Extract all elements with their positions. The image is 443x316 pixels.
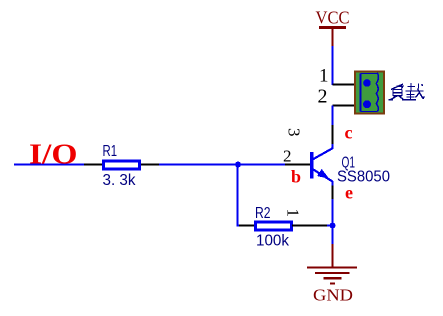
connector label 负载 (load), hand-drawn glyphs [389, 83, 425, 100]
transistor Q1 base bar [310, 152, 314, 179]
glyph 载 [408, 86, 416, 88]
junction A (dot at base net split) [235, 162, 241, 168]
connector J1 inner contact rail [360, 74, 362, 112]
svg-text:3: 3 [285, 128, 304, 137]
connector J1 pin 1 circle [363, 79, 371, 87]
connector J1 clamp arcs (wavy right contact) [376, 73, 378, 112]
svg-text:e: e [345, 183, 353, 203]
svg-text:100k: 100k [256, 233, 290, 250]
wire: I/O net horizontal left segment [14, 164, 85, 166]
power VCC stub (dark red) [331, 27, 333, 47]
wire: R2 to junction B [327, 225, 333, 227]
transistor Q1 emitter lead [332, 186, 334, 201]
resistor R2 body [256, 222, 292, 230]
connector J1 body (terminal block) [355, 71, 384, 113]
transistor Q1 collector lead [332, 124, 334, 145]
wire: emitter down to GND [332, 199, 334, 245]
svg-text:2: 2 [283, 147, 292, 166]
svg-text:1: 1 [319, 66, 329, 87]
ground bar 2 [315, 272, 350, 274]
resistor R1 pin 1 (left lead) [84, 164, 103, 166]
power VCC bar [319, 26, 346, 29]
svg-text:I/O: I/O [29, 139, 78, 171]
transistor Q1 emitter diagonal [313, 169, 333, 182]
wire: connector pin 2 down to collector [332, 106, 334, 126]
connector J1 inner bottom edge [361, 111, 378, 113]
wire: junction A to transistor base [238, 164, 286, 166]
connector J1 pin 1 lead [333, 84, 356, 86]
svg-text:1: 1 [284, 209, 303, 218]
resistor R2 pin 1 (left lead) [239, 225, 255, 227]
connector J1 pin 2 circle [363, 100, 371, 108]
resistor R1 pin 2 (right lead) [141, 164, 160, 166]
svg-text:2: 2 [318, 86, 328, 108]
transistor Q1 emitter arrow [317, 169, 329, 179]
connector J1 inner top edge [361, 73, 378, 75]
svg-text:c: c [345, 123, 353, 143]
svg-text:R1: R1 [103, 143, 118, 160]
wire: R1 to junction A [159, 164, 238, 166]
junction B (dot at emitter / R2) [330, 223, 336, 229]
resistor R1 body [104, 161, 140, 169]
svg-text:SS8050: SS8050 [337, 169, 390, 186]
wire: collector lead blue stub [332, 144, 334, 149]
glyph 负 [391, 84, 403, 90]
transistor Q1 base lead [285, 164, 310, 166]
wire: VCC to connector pin 1 [332, 46, 334, 85]
ground bar 4 [330, 282, 335, 284]
svg-text:GND: GND [313, 286, 353, 305]
ground stub (dark red) [331, 244, 333, 267]
transistor Q1 collector diagonal [313, 148, 334, 160]
svg-text:R2: R2 [255, 205, 271, 222]
svg-text:3. 3k: 3. 3k [103, 172, 137, 189]
ground bar 1 [307, 266, 357, 268]
wire: junction A down to R2 [238, 165, 241, 226]
resistor R2 pin 2 (right lead) [292, 225, 328, 227]
svg-text:b: b [291, 167, 301, 187]
svg-text:VCC: VCC [316, 8, 350, 28]
wire: emitter blue stub [332, 181, 334, 186]
ground bar 3 [324, 277, 342, 279]
connector J1 pin 2 lead [333, 105, 356, 107]
